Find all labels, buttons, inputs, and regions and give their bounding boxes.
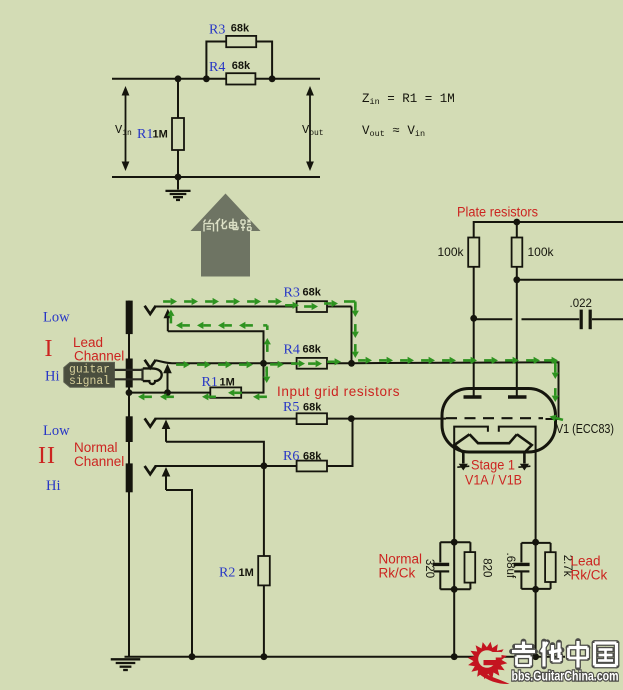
svg-text:.68uf: .68uf	[504, 553, 516, 579]
guitar plug	[115, 369, 143, 371]
guitar signal tag	[64, 362, 115, 387]
svg-text:Input grid resistors: Input grid resistors	[277, 384, 400, 399]
svg-text:320: 320	[423, 559, 435, 578]
resistor R1 (simplified) 1M	[177, 79, 179, 177]
resistor Rk 2.7k (lead)	[550, 543, 552, 552]
wire grid feed to V1B	[352, 362, 559, 419]
tube cathode V1B	[517, 434, 532, 463]
resistor R6 68k	[297, 461, 327, 472]
ground (main)	[111, 658, 141, 660]
text jianhua-dianlu on arrow	[204, 219, 252, 232]
node lead-network top	[532, 539, 539, 546]
svg-text:R3: R3	[209, 23, 225, 38]
wire simplified-bottom-rail	[112, 176, 320, 178]
signal path green arrows	[167, 310, 174, 316]
svg-text:R4: R4	[209, 60, 225, 75]
resistor plate 100k (V1A)	[516, 222, 518, 238]
node R1-chassis	[126, 389, 133, 396]
node bus normal-network	[451, 653, 458, 660]
wire normal network top rail	[440, 541, 470, 543]
svg-text:Vout: Vout	[302, 123, 324, 138]
svg-text:100k: 100k	[528, 245, 555, 259]
wire V1B plate lead	[516, 267, 518, 396]
jack Hi-Normal tip arrow	[165, 476, 167, 491]
jack panel bar 1 (Low Lead)	[126, 301, 133, 335]
svg-text:Lead: Lead	[571, 554, 601, 569]
jack panel bar 4 (Hi Normal)	[126, 463, 133, 492]
wire Low-Lead to R3	[155, 306, 297, 308]
svg-text:1M: 1M	[239, 567, 254, 579]
svg-text:Zin = R1 = 1M: Zin = R1 = 1M	[362, 92, 455, 107]
tube grid-cathode frame	[454, 427, 488, 543]
cathode arrow V1B	[520, 464, 529, 471]
svg-text:bbs.GuitarChina.com: bbs.GuitarChina.com	[512, 669, 619, 684]
capacitor Ck .68uf (lead)	[520, 543, 522, 563]
svg-text:R1: R1	[202, 375, 218, 390]
resistor Rk 820 (normal)	[469, 542, 471, 552]
svg-text:.022: .022	[570, 298, 592, 310]
tube cathode V1A	[454, 434, 469, 463]
wire simplified-top-rail	[112, 78, 320, 80]
node junction right of R4	[269, 75, 276, 82]
Vout arrow	[309, 93, 311, 164]
svg-text:100k: 100k	[438, 245, 465, 259]
wire junction to R4	[264, 362, 297, 364]
resistor R1 1M	[129, 363, 264, 392]
capacitor .022	[580, 310, 583, 330]
svg-text:Channel: Channel	[74, 454, 124, 469]
svg-text:Stage 1: Stage 1	[471, 457, 515, 473]
wire Hi-Normal sleeve to ground	[166, 490, 192, 657]
jack Hi-Normal contact V	[145, 466, 156, 474]
svg-text:68k: 68k	[303, 344, 322, 356]
svg-text:Low: Low	[43, 423, 70, 439]
svg-text:68k: 68k	[231, 23, 250, 35]
svg-text:V1 (ECC83): V1 (ECC83)	[556, 422, 614, 436]
ground (simplified circuit)	[177, 177, 179, 190]
wire V1A cathode lead	[453, 542, 455, 657]
tube V1 envelope	[442, 389, 556, 453]
wire lead network bottom rail	[521, 588, 550, 590]
svg-text:Low: Low	[43, 310, 70, 326]
svg-text:R5: R5	[283, 400, 299, 415]
svg-text:II: II	[38, 443, 56, 469]
watermark text GuitarChina	[515, 644, 532, 650]
svg-text:R6: R6	[283, 449, 299, 464]
wire R4 to grid corner	[327, 362, 352, 364]
wire R5 to tube grid V1A	[327, 418, 446, 420]
wire R6 up to R5 junction	[327, 419, 353, 466]
resistor R3 (simplified) 68k	[226, 36, 256, 47]
node input junction	[260, 360, 267, 367]
wire V1B output	[517, 279, 623, 281]
node bus R2	[261, 653, 268, 660]
svg-text:Channel: Channel	[74, 349, 124, 364]
resistor R2 1M	[263, 466, 265, 657]
wire V1B cathode lead	[535, 542, 537, 657]
svg-text:Hi: Hi	[46, 478, 61, 494]
svg-text:R2: R2	[219, 566, 235, 581]
wire Low-Normal shorting link	[166, 442, 264, 466]
node R1-arrow	[164, 389, 171, 396]
wire chassis ground line	[128, 301, 130, 657]
svg-text:R4: R4	[284, 343, 300, 358]
jack Hi-Lead contact V	[145, 360, 156, 368]
node normal input junction	[261, 462, 268, 469]
tube grid dashed line	[446, 417, 543, 419]
resistor R5 68k	[297, 413, 327, 424]
svg-text:1M: 1M	[153, 129, 168, 141]
tube cathode bridge	[470, 434, 517, 443]
svg-text:R1: R1	[137, 127, 153, 142]
svg-text:820: 820	[481, 558, 493, 577]
resistor R4 (simplified) 68k	[226, 73, 255, 84]
node R5/R6 junction	[348, 415, 355, 422]
svg-text:68k: 68k	[303, 451, 322, 463]
svg-text:signal: signal	[69, 375, 110, 388]
svg-text:Rk/Ck: Rk/Ck	[571, 567, 608, 582]
wire normal network bottom rail	[440, 588, 470, 590]
node bus hi-normal	[189, 653, 196, 660]
wire shorting zigzag	[168, 331, 264, 363]
svg-text:68k: 68k	[232, 60, 251, 72]
svg-text:1M: 1M	[220, 376, 235, 388]
wire R3 parallel loop	[206, 42, 226, 79]
node V1A plate out	[470, 315, 477, 322]
jack Low-Lead shorting contact arrow	[167, 317, 169, 331]
svg-text:R3: R3	[284, 286, 300, 301]
svg-text:Rk/Ck: Rk/Ck	[379, 566, 416, 581]
capacitor Ck 320 (normal)	[439, 542, 441, 562]
wire R3 to corner	[327, 306, 352, 308]
svg-text:Normal: Normal	[379, 552, 423, 567]
svg-text:Plate resistors: Plate resistors	[457, 205, 538, 220]
node V1B plate out	[513, 276, 520, 283]
wire Low-Normal to R5	[155, 418, 297, 420]
node junction left of R4	[203, 75, 210, 82]
wire ground bus	[125, 656, 566, 658]
svg-text:Vout ≈ Vin: Vout ≈ Vin	[362, 124, 425, 139]
wire V1A output to coupling cap	[475, 318, 512, 320]
wire lead network top rail	[521, 542, 550, 544]
svg-text:68k: 68k	[303, 402, 322, 414]
jack Hi-Lead tip contact arrow	[167, 372, 169, 392]
node normal-network top	[451, 539, 458, 546]
jack panel bar 2 (Hi Lead)	[126, 359, 133, 388]
tube V1B plate	[508, 395, 527, 398]
svg-text:I: I	[45, 336, 53, 362]
svg-text:V1A / V1B: V1A / V1B	[465, 472, 522, 488]
cathode arrow V1A	[459, 464, 468, 471]
node R3/R4 junction	[348, 360, 355, 367]
svg-text:Hi: Hi	[45, 369, 60, 385]
wire B+ rail	[474, 222, 623, 238]
node B+ junction	[513, 219, 520, 226]
jack Low-Normal shorting arrow	[165, 428, 167, 442]
jack Low-Normal contact V	[145, 418, 156, 426]
svg-text:68k: 68k	[303, 287, 322, 299]
watermark logo	[468, 642, 510, 684]
wire Hi-Lead to junction	[156, 360, 264, 363]
resistor plate 100k (V1B)	[512, 238, 523, 267]
jack Low-Lead contact V	[145, 306, 156, 314]
wire Hi-Normal to R6	[155, 465, 297, 467]
Vin arrow	[125, 93, 127, 164]
svg-text:Normal: Normal	[74, 440, 118, 455]
resistor R4 68k	[297, 358, 327, 369]
wire V1A plate lead	[473, 267, 475, 396]
jack panel bar 3 (Low Normal)	[126, 416, 133, 442]
node bus lead-network	[532, 653, 539, 660]
big arrow (simplified-circuit callout)	[191, 194, 261, 277]
resistor R3 68k	[297, 301, 327, 312]
tube V1A plate	[464, 395, 482, 398]
svg-text:Vin: Vin	[115, 123, 132, 138]
